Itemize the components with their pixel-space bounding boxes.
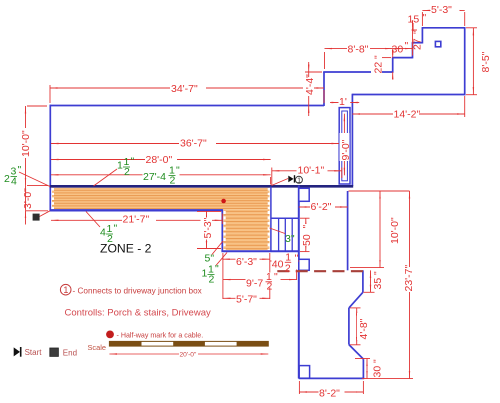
text 22 rotated bbox=[371, 56, 382, 74]
svg-text:9'-0": 9'-0" bbox=[340, 139, 352, 160]
ext 8'-2" right bbox=[362, 381, 364, 394]
text 10'-1" bbox=[297, 165, 328, 175]
dim line 6'-3" bbox=[222, 258, 269, 260]
dim line 35" bbox=[370, 270, 372, 292]
svg-text:": " bbox=[405, 40, 409, 52]
leader start symbol bbox=[272, 179, 289, 186]
leader 3" green bbox=[270, 228, 286, 234]
text 28'-0" bbox=[145, 155, 177, 164]
ext 50" top bbox=[300, 217, 310, 219]
text 9'-7 1/2" bbox=[246, 273, 281, 288]
svg-text:4: 4 bbox=[11, 176, 17, 188]
leader 1 1/2" lower bbox=[216, 253, 228, 267]
ext vertical left of 9'-7 bbox=[222, 253, 224, 299]
dim line 27'-4 1/2" bbox=[51, 174, 271, 176]
svg-text:20'-0": 20'-0" bbox=[180, 352, 197, 359]
svg-text:40: 40 bbox=[272, 259, 284, 271]
ext vertical right of 5'-7 bbox=[269, 253, 271, 299]
svg-text:4'-8": 4'-8" bbox=[358, 318, 370, 339]
svg-text:27'-4: 27'-4 bbox=[143, 171, 166, 183]
wall orange right edge x=270.9 bbox=[270, 187, 272, 252]
svg-text:": " bbox=[18, 164, 22, 176]
svg-text:5'-3": 5'-3" bbox=[202, 217, 214, 238]
ext 5'-3" top left bbox=[421, 12, 423, 26]
text 5'-3" mid rotated bbox=[201, 218, 213, 240]
dim line 36'-7" bbox=[51, 143, 339, 145]
svg-text:- Half-way mark for a cable.: - Half-way mark for a cable. bbox=[117, 332, 204, 340]
text 6'-3" bbox=[236, 256, 260, 265]
text 21'-7" bbox=[122, 215, 156, 224]
leader 4 1/2" bbox=[86, 212, 100, 228]
dim line 8'-8" bbox=[325, 48, 393, 50]
svg-text:30: 30 bbox=[372, 366, 384, 378]
note 1 circled bbox=[60, 284, 71, 295]
dim line 14'-2" bbox=[352, 113, 464, 115]
dim line 8'-2" bbox=[299, 391, 363, 393]
post square C bbox=[299, 366, 309, 379]
stair top edge bbox=[271, 217, 299, 219]
ext 30" right bbox=[412, 49, 414, 56]
svg-text:": " bbox=[412, 30, 424, 34]
ext 10'-1" left bbox=[271, 168, 273, 186]
stair tread 3 bbox=[291, 218, 293, 251]
ext 50" bottom bbox=[300, 251, 310, 253]
text 14'-2" bbox=[393, 109, 419, 119]
legend start triangle bbox=[14, 347, 20, 356]
heated zone hatch corridor bbox=[52, 188, 270, 210]
svg-text:4'-4": 4'-4" bbox=[304, 74, 316, 95]
svg-text:14'-2": 14'-2" bbox=[394, 109, 421, 121]
ext vertical 9'-7 right bbox=[296, 262, 298, 280]
svg-text:9'-7: 9'-7 bbox=[246, 278, 263, 290]
half-way legend dot bbox=[106, 331, 114, 339]
text 23'-7" rotated bbox=[401, 267, 413, 292]
svg-text:23'-7": 23'-7" bbox=[403, 264, 415, 291]
dim line 10'-0" right bbox=[379, 191, 381, 267]
wall bottom edge of top-right section bbox=[352, 94, 465, 96]
navy long wall y=186 bbox=[50, 185, 354, 188]
svg-text:- Connects to driveway junctio: - Connects to driveway junction box bbox=[73, 287, 202, 296]
red dashed zone boundary bbox=[277, 270, 364, 272]
dim line 3'-0" bbox=[25, 185, 27, 210]
ext 30" lower top bbox=[355, 358, 370, 360]
svg-text:8'-8": 8'-8" bbox=[348, 43, 369, 55]
scale dim line bbox=[109, 353, 268, 355]
arrow tail 22" bottom bbox=[392, 72, 394, 80]
svg-text:": " bbox=[176, 165, 180, 177]
hatch white dashed edge corridor right bbox=[268, 188, 270, 209]
legend end square bbox=[50, 348, 59, 356]
svg-text:": " bbox=[295, 253, 299, 265]
svg-text:1: 1 bbox=[202, 268, 208, 280]
heated zone hatch block bbox=[223, 209, 269, 250]
svg-text:10'-0": 10'-0" bbox=[20, 130, 32, 157]
half-way red dot on plan bbox=[221, 199, 226, 204]
text 40 1/2" bbox=[272, 254, 299, 270]
svg-text:Controlls: Porch & stairs, Dri: Controlls: Porch & stairs, Driveway bbox=[65, 308, 211, 319]
start symbol triangle bbox=[288, 176, 293, 183]
arrow tail 27" top bbox=[412, 21, 414, 28]
arrow tail 4'-4" top bbox=[308, 62, 310, 72]
text 10'-0" left rotated bbox=[17, 128, 30, 158]
svg-text:30: 30 bbox=[392, 44, 404, 56]
svg-text:6'-2": 6'-2" bbox=[311, 201, 332, 213]
ext 8'-2" left bbox=[298, 381, 300, 394]
wall block+stairs bottom y=251.3 bbox=[221, 250, 299, 252]
svg-text:": " bbox=[301, 225, 313, 229]
svg-text:21'-7": 21'-7" bbox=[123, 214, 150, 226]
svg-text:5'-3": 5'-3" bbox=[431, 4, 452, 16]
text 8'-8" bbox=[347, 44, 370, 53]
stair tread 2 bbox=[284, 218, 286, 251]
circled 1 at start bbox=[295, 176, 302, 183]
ext 5'-3" top right bbox=[464, 12, 466, 26]
lower-right wall notch vertical bbox=[348, 308, 350, 345]
ext top shared 10'-0 and 23'-7 bbox=[349, 190, 410, 192]
svg-text:10'-0": 10'-0" bbox=[389, 217, 401, 244]
hatch white dashed edge block right bbox=[268, 211, 270, 250]
svg-text:1: 1 bbox=[297, 177, 301, 184]
ext 10'-0" left top bbox=[27, 105, 47, 107]
wall step run y=72 bbox=[323, 71, 393, 73]
ext 4'-8" top bbox=[350, 307, 361, 309]
svg-text:34'-7": 34'-7" bbox=[171, 83, 198, 95]
wall porch right x=347.6 bbox=[347, 191, 349, 270]
ext bottom shared 23'-7 bbox=[362, 378, 413, 380]
wall step rise x=412.5 bbox=[412, 43, 414, 59]
dim line 9'-0" bbox=[343, 114, 345, 176]
leader 5" green bbox=[212, 241, 223, 255]
svg-text:2: 2 bbox=[124, 166, 130, 178]
svg-text:10'-1": 10'-1" bbox=[298, 164, 325, 176]
leader 2 3/4 bbox=[19, 172, 50, 187]
wall step run y=57.6 bbox=[392, 57, 413, 59]
scale dim text bbox=[179, 351, 198, 358]
text 6'-2" bbox=[310, 201, 335, 211]
dim line 10'-1" bbox=[272, 170, 342, 172]
ext 14'-2" right bbox=[464, 96, 466, 117]
ext line 34'-7" left bbox=[49, 85, 51, 103]
ext 3'-0" bottom bbox=[26, 210, 48, 212]
scale bar segment 2 bbox=[173, 341, 205, 346]
wall top-right right edge bbox=[464, 27, 466, 95]
ext 4'-4" top bbox=[305, 71, 322, 73]
one-foot wall outer rectangle bbox=[339, 108, 350, 184]
ext 10'-0" right bottom bbox=[350, 267, 384, 269]
window square top-right bbox=[435, 41, 440, 46]
text 8'-2" bbox=[319, 388, 345, 398]
text 5'-7" bbox=[236, 294, 260, 304]
arrow tail 4'-4" bottom bbox=[308, 106, 310, 117]
wall vertical x=352.4 bbox=[351, 94, 353, 186]
dim line 34'-7" bbox=[50, 87, 324, 89]
wall step vertical at x=324 bbox=[323, 72, 325, 106]
svg-text:3'-0": 3'-0" bbox=[22, 188, 34, 209]
ext 27'-4 1/2" right bbox=[270, 177, 272, 185]
dim line 40 1/2" bbox=[270, 260, 299, 262]
svg-text:15: 15 bbox=[408, 14, 420, 26]
wall step run y=42.7 bbox=[412, 42, 423, 44]
text 36'-7" bbox=[179, 138, 216, 148]
svg-text:3": 3" bbox=[285, 233, 295, 245]
dim line 30" lower bbox=[366, 359, 368, 379]
dim line 5'-3" top bbox=[422, 9, 464, 11]
dim line 27" bbox=[412, 28, 414, 43]
svg-text:4: 4 bbox=[100, 227, 106, 239]
svg-text:50: 50 bbox=[301, 234, 313, 246]
lower-right wall lower diagonal bbox=[349, 345, 364, 360]
text 50" rotated bbox=[301, 224, 311, 246]
lower-right wall right bottom segment bbox=[362, 359, 364, 378]
svg-text:27: 27 bbox=[412, 38, 424, 50]
stair tread 1 bbox=[278, 218, 280, 251]
end square black bbox=[33, 214, 40, 221]
svg-text:36'-7": 36'-7" bbox=[180, 137, 207, 149]
text 4'-4" rotated bbox=[303, 77, 314, 96]
scale bar segment 1 bbox=[109, 341, 141, 346]
ext 22" left bbox=[381, 57, 391, 59]
svg-text:": " bbox=[274, 271, 278, 283]
arrow tail 1' left bbox=[330, 102, 339, 104]
arrow tail 1' right bbox=[350, 102, 359, 104]
dim line 30" top bbox=[393, 48, 413, 50]
post square B bbox=[299, 259, 309, 270]
dim line 50" bbox=[305, 218, 307, 251]
dim line 21'-7" bbox=[51, 219, 222, 221]
leader end square bbox=[40, 211, 51, 217]
svg-text:8'-2": 8'-2" bbox=[319, 387, 340, 399]
dim line 8'-5" bbox=[472, 28, 474, 95]
ext 35" bottom bbox=[363, 291, 374, 293]
svg-text:End: End bbox=[63, 348, 77, 357]
svg-text:5'-7": 5'-7" bbox=[236, 294, 257, 306]
wall step rise x=422.4 bbox=[421, 28, 423, 44]
ext line 34'-7" right bbox=[323, 90, 325, 103]
dim line 5'-3" mid bbox=[206, 212, 208, 249]
svg-text:8'-5": 8'-5" bbox=[480, 51, 492, 72]
ext 21'-7" right bbox=[221, 214, 223, 225]
wall left bbox=[49, 105, 51, 211]
legend start bar bbox=[20, 347, 22, 357]
ext 8'-5" top bbox=[466, 27, 477, 29]
svg-text:2: 2 bbox=[170, 175, 176, 187]
lower-right wall upper diagonal bbox=[349, 292, 363, 308]
svg-text:6'-3": 6'-3" bbox=[236, 256, 257, 268]
arrow tail 22" top bbox=[392, 51, 394, 58]
ext 5'-3" mid top bbox=[197, 210, 221, 212]
wall top-right top edge bbox=[422, 27, 465, 29]
ext 5'-3" mid bottom bbox=[197, 248, 221, 250]
arrow tail 3'-0" bottom bbox=[25, 211, 27, 225]
dim line 23'-7" bbox=[409, 191, 411, 378]
svg-text:": " bbox=[131, 156, 135, 168]
svg-text:": " bbox=[372, 271, 384, 275]
dim line 4'-4" bbox=[308, 72, 310, 106]
tick 15" bbox=[412, 29, 418, 31]
lower-right wall right top segment bbox=[362, 270, 364, 292]
dim line 6'-2" bbox=[299, 206, 348, 208]
ext 8'-8" right bbox=[392, 49, 394, 55]
lower-right wall bottom edge bbox=[299, 377, 364, 379]
text 4'-8" rotated bbox=[357, 313, 368, 340]
svg-text:": " bbox=[373, 55, 385, 59]
svg-text:": " bbox=[114, 223, 118, 235]
ext 4'-8" bottom bbox=[350, 344, 361, 346]
svg-text:": " bbox=[215, 263, 219, 275]
scale bar segment 3 bbox=[237, 341, 269, 346]
start symbol bar bbox=[294, 175, 296, 182]
one-foot wall inner rectangle bbox=[342, 111, 348, 181]
svg-text:2: 2 bbox=[4, 173, 10, 185]
wall porch left long x=298.8 bbox=[298, 186, 300, 379]
svg-text:1: 1 bbox=[117, 160, 123, 172]
hatch white dashed edge block left bbox=[224, 211, 226, 250]
dim line 9'-7 1/2" bbox=[223, 279, 297, 281]
svg-text:ZONE - 2: ZONE - 2 bbox=[100, 242, 152, 256]
dim line 4'-8" bbox=[356, 308, 358, 345]
text 27'-4 1/2" green bbox=[143, 167, 180, 181]
svg-text:2: 2 bbox=[267, 281, 273, 293]
wall corridor bottom y=210.3 bbox=[50, 209, 223, 211]
arrow tail 27" bottom bbox=[412, 43, 414, 50]
svg-text:1': 1' bbox=[339, 96, 347, 108]
ext 10'-0" left mid bbox=[27, 185, 48, 187]
svg-text:Start: Start bbox=[25, 348, 43, 357]
svg-text:": " bbox=[423, 12, 427, 24]
text 5'-3" top bbox=[431, 4, 460, 14]
dim line 10'-0" left bbox=[25, 106, 27, 185]
svg-text:Scale: Scale bbox=[88, 343, 107, 352]
svg-text:2: 2 bbox=[285, 262, 291, 274]
ext 8'-5" bottom bbox=[466, 94, 477, 96]
svg-text:1: 1 bbox=[63, 285, 68, 295]
svg-text:22: 22 bbox=[373, 62, 385, 74]
ext 10'-1" right bbox=[341, 168, 343, 179]
wall top edge of upper rectangle bbox=[50, 105, 325, 107]
text 34'-7" bbox=[170, 83, 206, 93]
dim line 28'-0" bbox=[51, 159, 271, 161]
ext 15" left vertical bbox=[412, 23, 414, 31]
dim line 5'-7" bbox=[223, 297, 270, 299]
wall block left x=222.3 bbox=[221, 209, 223, 251]
hatch white dashed edge corridor left bbox=[52, 188, 54, 209]
ext 8'-8" left bbox=[324, 52, 326, 69]
svg-text:35: 35 bbox=[372, 278, 384, 290]
scale bar outline bbox=[109, 341, 268, 346]
post square A bbox=[299, 188, 309, 201]
svg-text:": " bbox=[372, 359, 384, 363]
text 1' bbox=[339, 98, 348, 106]
text 9'-0" rotated bbox=[340, 133, 350, 161]
leader 1 1/2" upper bbox=[94, 169, 118, 186]
wall step rise x=392.7 bbox=[392, 58, 394, 73]
svg-text:2: 2 bbox=[209, 274, 215, 286]
